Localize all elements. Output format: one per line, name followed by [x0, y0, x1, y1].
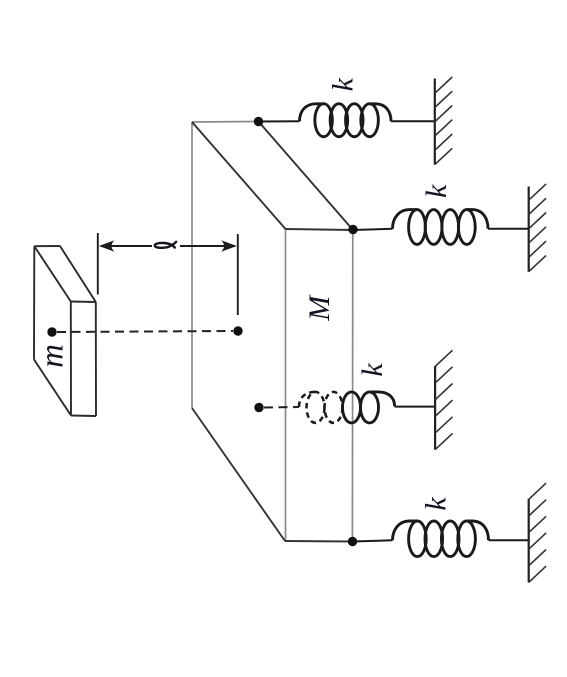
svg-text:k: k [326, 77, 359, 91]
svg-text:M: M [303, 294, 336, 322]
svg-text:k: k [356, 363, 389, 377]
svg-text:m: m [35, 344, 71, 368]
svg-text:k: k [420, 184, 453, 198]
svg-text:k: k [420, 497, 453, 511]
